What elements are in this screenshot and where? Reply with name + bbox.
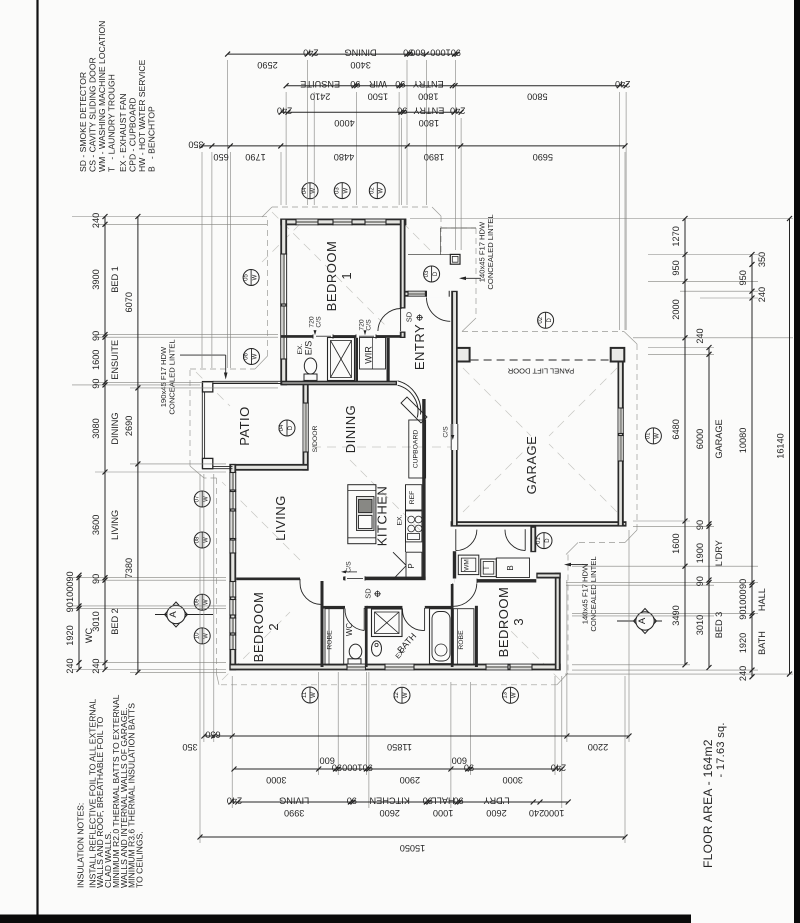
svg-text:W: W	[203, 633, 209, 639]
right dim chain 2	[708, 348, 710, 668]
svg-text:FLOOR AREA - 164m2: FLOOR AREA - 164m2	[701, 739, 715, 868]
svg-text:10080: 10080	[738, 428, 748, 454]
svg-text:1000: 1000	[433, 808, 453, 818]
svg-text:240: 240	[91, 213, 101, 228]
top dim chain row2	[286, 85, 626, 87]
svg-text:EX - EXHAUST FAN: EX - EXHAUST FAN	[118, 93, 128, 172]
island bench with sink	[348, 485, 376, 544]
svg-text:PATIO: PATIO	[237, 406, 252, 446]
scan border: left vertical line	[36, 0, 38, 915]
svg-text:1920: 1920	[65, 625, 75, 645]
laundry door 1 (hall side) leaf + swing	[455, 529, 457, 550]
entry cupboard (angled + straight)	[401, 397, 427, 423]
svg-text:TO CEILINGS.: TO CEILINGS.	[135, 831, 145, 888]
window W06 ensuite west	[280, 306, 287, 359]
svg-text:GARAGE: GARAGE	[714, 419, 724, 458]
svg-text:SD: SD	[405, 311, 414, 322]
svg-text:2: 2	[266, 623, 281, 630]
C/S opening garage west	[451, 424, 459, 450]
svg-text:950: 950	[671, 260, 681, 275]
pantry P with bifold	[406, 552, 422, 579]
ensuite toilet	[304, 374, 317, 380]
svg-text:W: W	[203, 496, 209, 502]
window bubble W12	[394, 687, 410, 703]
svg-text:ROBE: ROBE	[327, 630, 334, 650]
laundry door 2 (garage side) leaf + swing	[524, 529, 526, 550]
svg-text:90: 90	[695, 520, 705, 530]
extension lines right	[410, 218, 793, 220]
kitchen bench line	[405, 485, 407, 552]
windows W04 W03 W02 in north wall	[296, 219, 318, 226]
bed2 door swing	[299, 579, 301, 583]
svg-text:3: 3	[511, 618, 526, 625]
left dim chain: main	[104, 217, 106, 670]
svg-text:W: W	[655, 433, 661, 439]
bottom dim chain row1	[204, 735, 629, 737]
svg-text:10: 10	[194, 632, 200, 639]
external wall: bed1 east / entry west	[400, 219, 406, 309]
svg-text:D: D	[433, 271, 439, 276]
eaves outline (dashed)	[272, 206, 432, 208]
window bubble W01	[645, 428, 661, 444]
svg-text:W: W	[203, 537, 209, 543]
svg-text:1920: 1920	[738, 633, 748, 653]
svg-text:WM: WM	[464, 559, 471, 571]
svg-text:ENTRY: ENTRY	[413, 106, 444, 116]
internal wall: ensuite/WIR divider	[355, 338, 358, 381]
svg-text:2410: 2410	[310, 92, 330, 102]
svg-text:WIR: WIR	[364, 346, 374, 364]
svg-text:04: 04	[279, 424, 285, 431]
svg-text:W: W	[252, 274, 258, 280]
external wall: south	[229, 664, 560, 671]
svg-text:3080: 3080	[91, 418, 101, 438]
svg-text:11850: 11850	[387, 742, 412, 752]
bottom dim chain row3	[231, 801, 568, 803]
svg-text:240: 240	[65, 658, 75, 673]
window bubble W04	[302, 183, 318, 199]
svg-text:3990: 3990	[284, 808, 304, 818]
svg-text:BEDROOM: BEDROOM	[496, 587, 511, 658]
svg-text:90: 90	[65, 602, 75, 612]
svg-text:WIR: WIR	[369, 79, 387, 89]
svg-text:1790: 1790	[245, 152, 265, 162]
svg-text:W: W	[253, 353, 259, 359]
svg-text:1000: 1000	[430, 48, 450, 58]
svg-text:B: B	[506, 565, 515, 570]
svg-text:90: 90	[738, 579, 748, 589]
svg-text:T: T	[482, 565, 491, 570]
bed3 door swing	[452, 583, 454, 606]
door bubble D02	[538, 312, 554, 328]
svg-text:2900: 2900	[400, 775, 420, 785]
internal wall: WIR east / entry	[387, 338, 390, 382]
svg-text:INSULATION NOTES:: INSULATION NOTES:	[75, 803, 85, 888]
svg-text:LIVING: LIVING	[279, 795, 309, 805]
bed1 door swing	[400, 309, 402, 332]
WIR rail and shelf	[360, 338, 386, 370]
extension lines bottom	[203, 474, 205, 742]
left dim chain: outer (wc/hall)	[78, 575, 80, 669]
roof hip lines inside plan (faint)	[272, 212, 388, 328]
svg-text:C/S: C/S	[346, 561, 353, 573]
internal wall: bed3 west	[475, 606, 478, 667]
svg-text:1270: 1270	[671, 226, 681, 246]
svg-text:240: 240	[551, 762, 566, 772]
svg-text:350: 350	[757, 252, 767, 267]
svg-text:W: W	[203, 599, 209, 605]
svg-text:90: 90	[395, 79, 405, 89]
svg-text:S/DOOR: S/DOOR	[312, 426, 319, 453]
svg-text:D: D	[288, 425, 294, 430]
svg-text:650: 650	[213, 152, 228, 162]
svg-text:C/S: C/S	[316, 316, 323, 328]
external wall: living north (patio south)	[229, 464, 308, 471]
laundry bench B	[496, 558, 529, 578]
svg-text:08: 08	[194, 536, 200, 543]
external wall: garage south	[451, 521, 627, 526]
svg-text:350: 350	[188, 139, 203, 149]
external wall: bed3 east	[555, 573, 561, 671]
svg-text:WC: WC	[84, 627, 94, 643]
svg-text:240: 240	[227, 795, 242, 805]
left dim chain: totals	[137, 217, 139, 673]
svg-text:3400: 3400	[350, 60, 370, 70]
window bubble W13	[503, 687, 519, 703]
top dim chain row4	[202, 145, 625, 147]
window bubble W09	[194, 594, 210, 610]
svg-text:E/S: E/S	[304, 341, 314, 356]
top dim chain row1	[228, 53, 458, 55]
windows W09/W10 bed2 west	[229, 582, 236, 598]
porch slab line	[408, 254, 450, 256]
windows W11 W12 W13 in south wall	[347, 664, 366, 671]
svg-text:5800: 5800	[527, 92, 547, 102]
svg-text:1600: 1600	[91, 350, 101, 370]
svg-text:240: 240	[277, 106, 292, 116]
svg-text:BEDROOM: BEDROOM	[324, 241, 339, 312]
window bubble W11	[302, 687, 318, 703]
REF	[406, 485, 422, 510]
svg-text:90: 90	[91, 574, 101, 584]
external wall: dining west (patio side)	[303, 381, 309, 471]
svg-text:1000: 1000	[544, 808, 564, 818]
svg-text:ENTRY: ENTRY	[412, 324, 427, 370]
entry door opening + swing	[427, 290, 450, 297]
window bubble W03	[334, 183, 350, 199]
svg-text:16140: 16140	[776, 433, 786, 459]
svg-text:90: 90	[695, 576, 705, 586]
curved nib wall to cupboard	[398, 381, 421, 415]
svg-text:2590: 2590	[257, 60, 277, 70]
svg-text:1500: 1500	[368, 92, 388, 102]
internal wall: laundry west	[453, 551, 456, 578]
svg-text:WC: WC	[345, 623, 354, 637]
svg-text:90: 90	[403, 48, 413, 58]
svg-text:- 17.63 sq.: - 17.63 sq.	[715, 722, 727, 777]
svg-text:1900: 1900	[695, 543, 705, 563]
svg-text:L'DRY: L'DRY	[483, 795, 509, 805]
bed2 robe	[325, 609, 344, 665]
top dim chain row3	[281, 111, 461, 113]
svg-text:CONCEALED LINTEL: CONCEALED LINTEL	[589, 556, 598, 631]
external wall: step wall laundry/bed3	[536, 573, 560, 579]
svg-text:1800: 1800	[419, 118, 439, 128]
svg-text:90: 90	[91, 378, 101, 388]
svg-text:01: 01	[536, 537, 542, 544]
svg-text:13: 13	[503, 691, 509, 698]
svg-text:240: 240	[529, 808, 544, 818]
external wall: entry east / garage west	[451, 291, 458, 527]
internal wall: living/bed2	[236, 578, 300, 581]
svg-text:DINING: DINING	[110, 412, 120, 444]
svg-text:1600: 1600	[671, 533, 681, 553]
extension lines top	[227, 60, 229, 368]
internal wall: bed2 east / robe	[321, 581, 324, 667]
svg-text:1: 1	[339, 272, 354, 279]
window W01 garage east	[618, 408, 624, 434]
svg-text:2200: 2200	[588, 742, 608, 752]
svg-text:HALL: HALL	[757, 588, 767, 611]
window bubble W08	[194, 532, 210, 548]
svg-text:07: 07	[194, 495, 200, 502]
svg-text:BED 2: BED 2	[110, 608, 120, 635]
right dim chain 1	[684, 219, 686, 665]
cooktop + EX	[406, 511, 422, 542]
external wall: garage east	[618, 347, 624, 527]
svg-text:1000: 1000	[738, 589, 748, 609]
garage north: panel door stubs	[454, 347, 470, 363]
svg-text:03: 03	[424, 270, 430, 277]
windows W07/W08 living west	[229, 473, 236, 491]
svg-text:W: W	[512, 692, 518, 698]
external wall: west living/bed2	[229, 464, 236, 671]
svg-text:WM - WASHING MACHINE LOCATION: WM - WASHING MACHINE LOCATION	[97, 21, 107, 172]
internal wall: kitchen south	[343, 577, 426, 581]
svg-text:HW - HOT WATER SERVICE: HW - HOT WATER SERVICE	[137, 59, 147, 172]
svg-text:SD: SD	[364, 588, 373, 599]
ensuite shower	[328, 338, 355, 381]
sliding door S/DOOR glazing	[303, 403, 309, 452]
svg-text:A: A	[637, 617, 648, 624]
internal wall: kitchen east	[422, 399, 425, 580]
window bubble W10	[194, 628, 210, 644]
svg-text:L'DRY: L'DRY	[714, 540, 724, 566]
door bubble D03	[424, 266, 440, 282]
svg-text:PANEL LIFT DOOR: PANEL LIFT DOOR	[507, 367, 574, 376]
svg-text:ENSUITE: ENSUITE	[300, 79, 340, 89]
svg-text:90: 90	[423, 795, 433, 805]
external wall: laundry east	[530, 527, 536, 553]
svg-text:ROBE: ROBE	[458, 630, 465, 650]
svg-text:6000: 6000	[695, 429, 705, 449]
svg-text:CONCEALED LINTEL: CONCEALED LINTEL	[168, 339, 177, 414]
svg-text:02: 02	[538, 316, 544, 323]
svg-text:240: 240	[738, 666, 748, 681]
svg-text:LIVING: LIVING	[110, 510, 120, 540]
svg-text:5690: 5690	[533, 152, 553, 162]
svg-text:2600: 2600	[379, 808, 399, 818]
bottom dim chain row4: total 15050	[200, 836, 625, 838]
scan border: right black bar	[794, 0, 800, 129]
svg-text:240: 240	[303, 48, 318, 58]
svg-text:DINING: DINING	[345, 48, 377, 58]
svg-text:BEDROOM: BEDROOM	[251, 592, 266, 663]
patio post SW	[203, 458, 213, 468]
svg-text:650: 650	[205, 729, 220, 739]
bottom dim chain row2	[234, 768, 562, 770]
svg-text:90: 90	[451, 48, 461, 58]
right dim chain: total 16140	[789, 219, 791, 675]
svg-text:SD - SMOKE DETECTOR: SD - SMOKE DETECTOR	[78, 72, 88, 172]
svg-text:90: 90	[453, 795, 463, 805]
internal wall: bed1 south	[281, 335, 401, 338]
svg-text:T - LAUNDRY TROUGH: T - LAUNDRY TROUGH	[107, 74, 117, 172]
svg-text:3000: 3000	[502, 775, 522, 785]
svg-text:CUPBOARD: CUPBOARD	[413, 430, 420, 469]
svg-text:02: 02	[370, 187, 376, 194]
svg-text:12: 12	[394, 691, 400, 698]
svg-text:3600: 3600	[91, 515, 101, 535]
svg-text:1000: 1000	[342, 762, 362, 772]
svg-text:D: D	[547, 317, 553, 322]
svg-text:11: 11	[302, 691, 308, 698]
svg-text:06: 06	[244, 353, 250, 360]
svg-text:KITCHEN: KITCHEN	[370, 795, 410, 805]
svg-text:240: 240	[695, 328, 705, 343]
svg-text:720: 720	[359, 319, 366, 331]
svg-text:ENSUITE: ENSUITE	[110, 340, 120, 380]
svg-text:3900: 3900	[91, 269, 101, 289]
svg-text:350: 350	[182, 742, 197, 752]
window bubble W02	[369, 183, 385, 199]
svg-text:7380: 7380	[124, 558, 134, 578]
internal wall: wc east	[365, 609, 368, 668]
svg-text:1800: 1800	[418, 92, 438, 102]
bath vanity	[372, 641, 382, 656]
svg-text:EX.: EX.	[297, 343, 304, 354]
svg-text:90: 90	[350, 79, 360, 89]
bath shower	[372, 609, 403, 637]
svg-text:BED 3: BED 3	[714, 612, 724, 639]
svg-text:3010: 3010	[695, 615, 705, 635]
C/S 720 openings	[313, 334, 333, 340]
svg-text:CS - CAVITY SLIDING DOOR: CS - CAVITY SLIDING DOOR	[88, 57, 98, 172]
svg-text:W: W	[343, 187, 349, 193]
patio slab edge top	[213, 380, 281, 382]
svg-text:REF: REF	[409, 491, 416, 505]
svg-text:90: 90	[738, 609, 748, 619]
svg-text:2000: 2000	[671, 299, 681, 319]
svg-text:A: A	[168, 611, 179, 618]
svg-text:B - BENCHTOP: B - BENCHTOP	[147, 106, 157, 172]
svg-text:90: 90	[332, 762, 342, 772]
svg-text:15050: 15050	[400, 843, 426, 853]
svg-text:4000: 4000	[334, 118, 354, 128]
external wall: bedroom1/ensuite west	[280, 219, 287, 386]
svg-text:3490: 3490	[671, 605, 681, 625]
svg-text:CPD - CUPBOARD: CPD - CUPBOARD	[128, 98, 138, 173]
section marker A left	[155, 614, 213, 616]
svg-text:1890: 1890	[424, 152, 444, 162]
svg-text:W: W	[403, 692, 409, 698]
internal wall: wc/bath/robe north	[322, 606, 345, 609]
laundry WM	[458, 555, 479, 575]
internal wall: laundry/bed3 divide	[454, 579, 536, 582]
window bubble W07	[194, 491, 210, 507]
svg-text:240: 240	[615, 79, 630, 89]
internal wall: bath east	[451, 584, 454, 667]
svg-text:DINING: DINING	[343, 405, 358, 454]
scan border: bottom black bar	[0, 915, 691, 923]
svg-text:2690: 2690	[124, 416, 134, 436]
svg-text:1000: 1000	[65, 582, 75, 602]
wc toilet	[348, 659, 361, 664]
svg-text:D: D	[545, 538, 551, 543]
svg-text:240: 240	[91, 658, 101, 673]
right dim chain 3	[751, 255, 753, 677]
svg-text:LIVING: LIVING	[273, 495, 288, 541]
door bubble D01	[536, 533, 552, 549]
svg-text:90: 90	[91, 331, 101, 341]
bath door swing	[424, 608, 426, 631]
svg-text:03: 03	[334, 187, 340, 194]
svg-text:ENTRY: ENTRY	[413, 79, 444, 89]
svg-text:720: 720	[309, 316, 316, 328]
svg-text:09: 09	[194, 598, 200, 605]
window bubble W06	[244, 349, 260, 365]
svg-text:BED 1: BED 1	[110, 266, 120, 293]
svg-text:90: 90	[347, 795, 357, 805]
svg-text:01: 01	[646, 432, 652, 439]
svg-text:CONCEALED LINTEL: CONCEALED LINTEL	[486, 214, 495, 289]
window bubble W05	[243, 270, 259, 286]
laundry trough T	[481, 559, 497, 577]
svg-text:P: P	[407, 563, 416, 568]
svg-text:4480: 4480	[334, 152, 354, 162]
svg-text:2600: 2600	[486, 808, 506, 818]
svg-text:C/S: C/S	[443, 426, 450, 438]
patio post NW	[203, 382, 213, 392]
porch pier	[450, 254, 460, 264]
svg-text:6070: 6070	[124, 292, 134, 312]
svg-text:BATH: BATH	[757, 631, 767, 655]
panel lift door dashed line	[471, 359, 610, 361]
external wall: bedroom1 north	[280, 219, 406, 226]
wc door swing	[363, 608, 365, 631]
svg-text:KITCHEN: KITCHEN	[375, 486, 390, 547]
svg-text:W: W	[311, 692, 317, 698]
section marker A right	[617, 620, 662, 622]
bath tub	[430, 609, 453, 664]
svg-text:W: W	[379, 187, 385, 193]
svg-text:EX.: EX.	[397, 514, 404, 525]
svg-text:3000: 3000	[266, 775, 286, 785]
svg-text:90: 90	[65, 571, 75, 581]
bed3 robe	[453, 609, 474, 665]
svg-text:6480: 6480	[671, 419, 681, 439]
svg-text:C/S: C/S	[366, 319, 373, 331]
svg-text:HALL: HALL	[432, 795, 455, 805]
internal wall: dining north (ensuite south)	[281, 381, 397, 386]
patio slab edge left	[201, 382, 203, 469]
svg-text:90: 90	[464, 762, 474, 772]
svg-text:950: 950	[738, 270, 748, 285]
extension lines left	[72, 216, 267, 218]
svg-text:240: 240	[757, 287, 767, 302]
window W05 bed1 west	[280, 254, 287, 304]
svg-text:05: 05	[243, 274, 249, 281]
